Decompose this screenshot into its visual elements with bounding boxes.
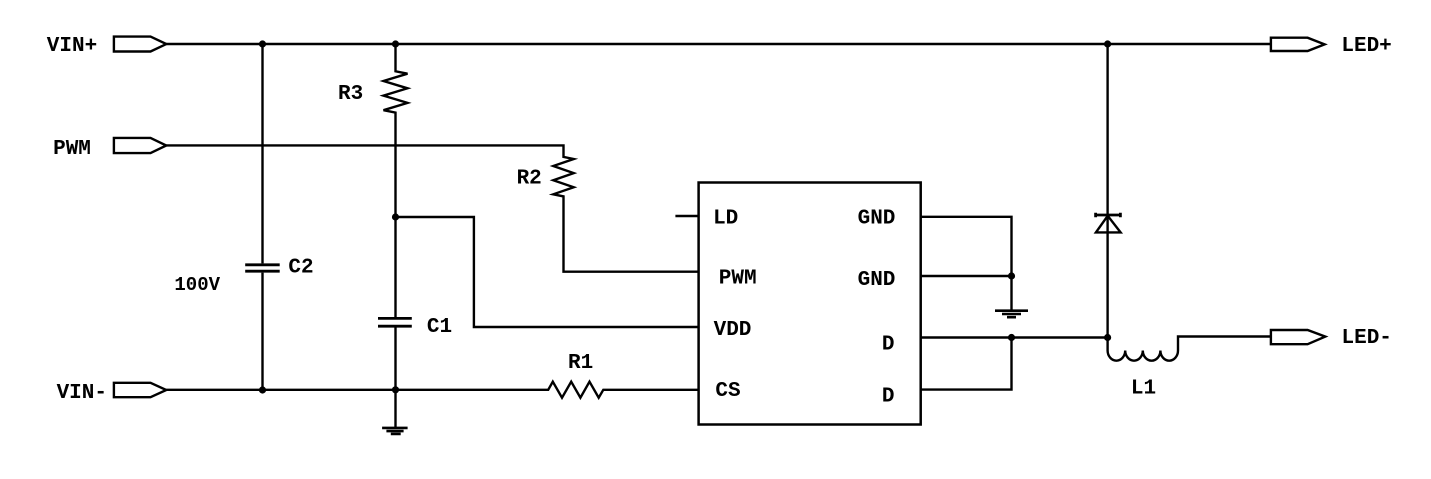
svg-text:VIN-: VIN- <box>57 382 107 405</box>
svg-text:C2: C2 <box>288 256 313 279</box>
svg-text:LED-: LED- <box>1341 327 1391 350</box>
svg-text:LD: LD <box>713 208 738 231</box>
svg-text:100V: 100V <box>174 274 220 296</box>
svg-text:CS: CS <box>715 380 740 403</box>
svg-text:PWM: PWM <box>719 268 757 291</box>
svg-text:VIN+: VIN+ <box>47 35 97 58</box>
svg-text:D: D <box>882 333 895 356</box>
svg-text:R2: R2 <box>517 168 542 191</box>
svg-text:GND: GND <box>858 269 896 292</box>
svg-text:VDD: VDD <box>714 319 752 342</box>
svg-text:D: D <box>882 386 895 409</box>
svg-text:C1: C1 <box>427 316 452 339</box>
svg-text:R1: R1 <box>568 352 593 375</box>
svg-text:L1: L1 <box>1131 378 1156 401</box>
svg-text:PWM: PWM <box>53 138 91 161</box>
svg-text:LED+: LED+ <box>1341 35 1391 58</box>
svg-text:R3: R3 <box>338 83 363 106</box>
svg-text:GND: GND <box>858 208 896 231</box>
